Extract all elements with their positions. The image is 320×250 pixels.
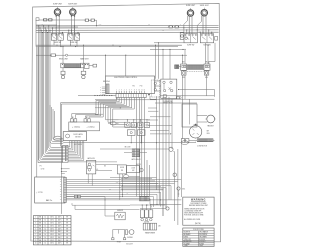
svg-text:BK: BK — [60, 181, 62, 183]
relay K4 — [144, 123, 149, 128]
svg-text:BK: BK — [60, 186, 62, 188]
convection motor M1 — [189, 126, 201, 138]
door lock assembly box — [35, 177, 65, 203]
svg-text:⏚ 1.05Ωmax: ⏚ 1.05Ωmax — [72, 125, 80, 128]
svg-text:MOL: MOL — [207, 133, 210, 135]
servo box — [127, 166, 140, 173]
svg-text:BK: BK — [60, 196, 62, 198]
svg-text:BK: BK — [39, 223, 41, 225]
wire bus left tie — [35, 20, 37, 47]
svg-text:BK: BK — [104, 166, 106, 168]
fuse F3 — [85, 19, 88, 21]
door switch box — [117, 165, 126, 174]
wire drops to right switches — [208, 30, 210, 34]
svg-text:SURF UNIT: SURF UNIT — [53, 4, 62, 6]
wire loop lower — [71, 203, 73, 205]
svg-text:Y-YELLOW: Y-YELLOW — [184, 239, 192, 241]
wire fuse feed — [39, 19, 85, 21]
svg-text:BROIL UNIT: BROIL UNIT — [59, 58, 68, 60]
oven sensor RTD — [115, 212, 125, 220]
fuse F5 on bus — [169, 26, 172, 28]
svg-text:105°C: 105°C — [50, 240, 54, 242]
transformer T1 — [143, 223, 149, 230]
relay module RM3 — [149, 210, 153, 218]
svg-text:PU-PURPLE: PU-PURPLE — [199, 234, 207, 236]
wire P1 long rows — [68, 161, 117, 163]
wire mesh horizontals — [100, 148, 169, 150]
terminal block TB1 — [215, 37, 218, 41]
svg-text:SE: SE — [66, 237, 68, 239]
relay K5 — [127, 130, 135, 136]
bus junction dots — [56, 27, 57, 28]
svg-text:BK: BK — [39, 243, 41, 245]
wire feed M3 — [150, 48, 184, 50]
svg-text:14: 14 — [45, 231, 47, 233]
svg-text:200°C: 200°C — [58, 217, 62, 219]
svg-text:14: 14 — [45, 234, 47, 236]
fuse F8 — [176, 97, 179, 99]
svg-text:200°C: 200°C — [58, 234, 62, 236]
bake element lead stub — [175, 65, 179, 69]
wire P1 up-comb — [68, 141, 70, 147]
svg-text:BK: BK — [39, 220, 41, 222]
svg-text:BROWN A: BROWN A — [103, 80, 110, 83]
wire SB4 drops — [202, 16, 204, 34]
lock housing box — [182, 104, 197, 127]
svg-text:BL-BLUE: BL-BLUE — [199, 239, 205, 241]
wire SB3 drops — [188, 16, 190, 34]
conv terminal blocks — [181, 139, 184, 143]
fan motor M2 — [207, 115, 215, 123]
relay K6 — [137, 130, 145, 136]
convection element E3 — [197, 139, 213, 142]
wire door sw drops — [119, 174, 121, 200]
relay module RM2 — [145, 210, 149, 218]
svg-text:12 RD: 12 RD — [41, 168, 45, 170]
svg-text:SE: SE — [66, 240, 68, 242]
connector arrow A1 — [150, 133, 170, 135]
fuse F6 on bus — [175, 26, 178, 28]
wire stub CB1 — [89, 65, 93, 67]
svg-text:TRANSFORMER: TRANSFORMER — [145, 231, 155, 234]
connector oval P9 — [123, 175, 128, 178]
svg-text:SURF UNIT: SURF UNIT — [200, 5, 209, 7]
infinite switch S4 — [74, 34, 79, 41]
fuse F1 — [44, 19, 47, 21]
svg-text:BK: BK — [116, 98, 118, 100]
broil feed wires — [62, 47, 64, 64]
svg-text:105°C: 105°C — [50, 225, 54, 227]
wire mesh stubs right — [148, 107, 157, 109]
svg-text:SE: SE — [66, 231, 68, 233]
wire harness feed arrows — [78, 95, 116, 97]
svg-text:BR-BROWN: BR-BROWN — [184, 241, 192, 243]
svg-text:P13: P13 — [140, 86, 143, 88]
hanger bracket left — [61, 71, 65, 74]
U1 edge connector — [106, 84, 109, 94]
svg-text:SURF UNIT: SURF UNIT — [186, 5, 195, 7]
svg-text:2 BK: 2 BK — [116, 182, 119, 184]
door latch motor box — [63, 132, 86, 141]
svg-text:BR: BR — [207, 131, 209, 133]
wire SB2 drops — [71, 15, 73, 33]
wire K11 drops — [156, 96, 158, 190]
svg-text:14: 14 — [45, 237, 47, 239]
MOL switch right — [204, 71, 208, 75]
svg-text:200°C: 200°C — [58, 228, 62, 230]
svg-text:ELECTRONIC OVEN CONTROL: ELECTRONIC OVEN CONTROL — [114, 77, 137, 79]
svg-text:SE: SE — [66, 225, 68, 227]
svg-text:10: 10 — [139, 90, 141, 92]
svg-text:BK: BK — [60, 194, 62, 196]
RM terminal circles — [141, 218, 144, 221]
relay K2 — [131, 123, 136, 128]
connector P2 strip — [116, 94, 146, 98]
wire SB4 bend — [197, 16, 201, 34]
wire bus L5 — [36, 31, 219, 33]
MOL switch left — [182, 71, 186, 75]
node lamp — [56, 54, 66, 56]
limiter L1 — [93, 64, 97, 67]
svg-text:4 R: 4 R — [126, 193, 128, 195]
svg-text:LATCH SW: LATCH SW — [87, 157, 95, 160]
svg-text:14: 14 — [45, 240, 47, 242]
solenoid box — [69, 122, 100, 131]
svg-text:BK: BK — [60, 189, 62, 191]
svg-text:WIRING SHOWN WITH DOOR: WIRING SHOWN WITH DOOR — [184, 209, 204, 211]
wire lamp feed — [36, 54, 51, 56]
svg-text:BK LOW: BK LOW — [125, 147, 131, 149]
svg-text:DOUBLE LINE: DOUBLE LINE — [163, 101, 172, 103]
svg-text:SE: SE — [66, 228, 68, 230]
wire gauge table — [33, 216, 71, 245]
svg-text:12: 12 — [144, 90, 146, 92]
connector block CB1 — [84, 63, 89, 68]
wire bake tops — [182, 55, 184, 64]
MOL node circle — [177, 187, 180, 190]
svg-text:14: 14 — [45, 228, 47, 230]
svg-text:SURF UNIT: SURF UNIT — [68, 4, 77, 6]
svg-text:BK: BK — [60, 184, 62, 186]
wire fuse feed right — [89, 19, 91, 21]
svg-text:SE: SE — [66, 217, 68, 219]
svg-text:6: 6 — [129, 90, 130, 92]
svg-text:BK: BK — [60, 199, 62, 201]
inline connector CB6 — [74, 195, 77, 198]
color code table — [183, 228, 214, 246]
thermal switch TS1 — [113, 230, 125, 238]
oven light switch box — [180, 33, 184, 40]
junction cross — [194, 123, 198, 125]
wire upper fan — [49, 105, 51, 142]
svg-text:MOTOR: MOTOR — [75, 137, 80, 139]
svg-text:BK 8: BK 8 — [205, 62, 208, 64]
connector stub CB5 — [84, 119, 87, 122]
svg-text:200°C: 200°C — [58, 223, 62, 225]
fuse F4 — [91, 19, 94, 21]
junction node J2 — [166, 207, 169, 210]
wire fan motor leads — [197, 114, 207, 116]
svg-text:SE: SE — [66, 220, 68, 222]
wire motor feed B — [150, 98, 214, 100]
svg-text:SE: SE — [66, 234, 68, 236]
U1 pin ticks — [116, 91, 118, 94]
relay K11 double line break — [161, 79, 177, 98]
svg-text:K6 24V: K6 24V — [136, 164, 141, 166]
fuse F2 — [49, 19, 52, 21]
svg-text:LOCK: LOCK — [131, 168, 135, 170]
svg-text:L2: L2 — [162, 30, 164, 32]
wire bus L4 — [36, 29, 219, 31]
relay K3 — [138, 122, 143, 127]
relay K1 — [125, 122, 130, 127]
wire SB3 bend — [184, 16, 188, 33]
broil element terminal left — [61, 63, 64, 68]
junction node J3 — [173, 173, 176, 176]
wire bus L6 (left stub) — [36, 26, 78, 28]
wire conv link — [189, 139, 197, 141]
svg-text:2: 2 — [119, 90, 120, 92]
terminal circle right — [82, 75, 85, 78]
svg-text:11: 11 — [141, 90, 143, 92]
svg-text:BK: BK — [39, 228, 41, 230]
wire main rail — [63, 142, 181, 144]
svg-text:POSITION. USE 105°C WIRE.: POSITION. USE 105°C WIRE. — [184, 215, 204, 217]
svg-text:BK: BK — [60, 179, 62, 181]
terminal circle left — [61, 75, 64, 78]
svg-text:SURF SW: SURF SW — [203, 45, 211, 47]
wire comb stub — [95, 107, 120, 109]
bake element terminal left — [181, 64, 187, 70]
svg-text:4: 4 — [124, 90, 125, 92]
connector block P8 — [132, 149, 140, 157]
svg-text:200°C: 200°C — [58, 225, 62, 227]
svg-text:14: 14 — [45, 220, 47, 222]
bake element terminal right — [204, 64, 210, 70]
svg-text:105°C: 105°C — [50, 234, 54, 236]
connector block P4 — [140, 196, 150, 201]
wire motor feed A — [160, 95, 214, 97]
connector P1 — [63, 145, 68, 162]
svg-text:⨍ 1.77Ω: ⨍ 1.77Ω — [37, 191, 44, 194]
svg-text:BK: BK — [39, 240, 41, 242]
svg-text:GR-GREEN: GR-GREEN — [199, 236, 207, 238]
P1 top row feed — [61, 145, 63, 147]
svg-text:FAN MOT: FAN MOT — [208, 124, 215, 127]
svg-text:BUZZER: BUZZER — [127, 237, 132, 239]
broil element E1 — [65, 64, 81, 68]
wire sensor link — [179, 89, 215, 91]
bake element mechanical link — [187, 71, 204, 73]
svg-text:1: 1 — [116, 90, 117, 92]
page border frame — [31, 3, 221, 241]
wire latch out — [96, 164, 118, 166]
wire drops to left switches — [52, 28, 54, 34]
wire center horizontals — [121, 178, 152, 180]
connector oval P7 — [111, 121, 116, 125]
svg-text:⏚ 1.05Ωmax: ⏚ 1.05Ωmax — [86, 125, 94, 128]
svg-text:MOL: MOL — [182, 189, 185, 191]
svg-text:V-VIOLET: V-VIOLET — [199, 241, 205, 243]
wire feed M2 — [36, 46, 178, 48]
svg-text:105°C: 105°C — [50, 243, 54, 245]
surface unit SB1 — [54, 9, 60, 15]
lock box pin strip — [64, 177, 67, 202]
relay module RM1 — [140, 210, 144, 218]
svg-text:105°C: 105°C — [50, 223, 54, 225]
svg-text:1 BK: 1 BK — [99, 24, 102, 26]
svg-text:SW: SW — [121, 170, 124, 172]
svg-text:DISCONNECT POWER: DISCONNECT POWER — [190, 203, 207, 205]
wire lock drops — [170, 186, 172, 200]
relay K10 (dashed) — [151, 80, 159, 97]
wire lamp to control — [68, 54, 187, 56]
surface unit SB3 — [187, 10, 193, 16]
svg-text:14: 14 — [45, 223, 47, 225]
svg-text:SENSOR: SENSOR — [117, 210, 123, 212]
svg-text:BAKE UNIT: BAKE UNIT — [80, 57, 88, 60]
connector P5 oval — [54, 136, 62, 140]
wire bus L1 — [36, 24, 57, 26]
wire relay feeds — [155, 45, 157, 79]
svg-text:200°C: 200°C — [58, 237, 62, 239]
wire RM feed — [130, 204, 165, 206]
bake element E2 — [187, 65, 204, 69]
wire right edge link — [214, 43, 216, 62]
svg-text:BK: BK — [39, 237, 41, 239]
infinite switch S5 — [184, 34, 197, 43]
notes box — [183, 197, 214, 225]
wire far-left drop — [36, 47, 38, 177]
svg-text:(NOTE): (NOTE) — [195, 223, 201, 225]
broil element terminal right — [81, 63, 84, 68]
infinite switch S2 — [58, 34, 63, 41]
wire motor drop — [195, 124, 197, 125]
svg-text:DOOR LATCH: DOOR LATCH — [73, 133, 82, 136]
svg-text:SW: SW — [132, 170, 135, 172]
svg-text:B: B — [100, 92, 101, 94]
svg-text:SURF SW: SURF SW — [187, 45, 195, 47]
svg-text:BK: BK — [60, 191, 62, 193]
svg-text:MAX 25s: MAX 25s — [46, 199, 53, 202]
svg-text:7: 7 — [131, 90, 132, 92]
svg-text:105°C: 105°C — [50, 220, 54, 222]
svg-text:200°C: 200°C — [58, 220, 62, 222]
connector block left edge — [36, 18, 39, 21]
svg-text:BK: BK — [39, 231, 41, 233]
svg-text:105°C: 105°C — [50, 237, 54, 239]
svg-text:W/BK: W/BK — [199, 245, 203, 247]
wire SB1 drops — [55, 15, 57, 33]
svg-text:DOOR: DOOR — [120, 167, 124, 169]
connector oval P6 — [181, 141, 188, 145]
svg-text:P1: P1 — [40, 166, 42, 168]
svg-text:B: B — [100, 90, 101, 92]
infinite switch S3 — [68, 34, 73, 41]
electronic oven control U1 — [106, 76, 155, 94]
svg-text:9: 9 — [136, 90, 137, 92]
svg-text:24V: 24V — [158, 226, 160, 228]
wire relay stubs — [126, 120, 128, 122]
fuse F7 — [51, 54, 56, 57]
wire bus L3 — [36, 27, 219, 29]
wire bake bottoms — [182, 75, 184, 139]
svg-text:3: 3 — [121, 90, 122, 92]
svg-text:14: 14 — [45, 217, 47, 219]
wire pair to latch — [61, 103, 116, 147]
svg-text:105°C: 105°C — [50, 217, 54, 219]
svg-text:R-RED: R-RED — [184, 236, 188, 238]
svg-text:105°C: 105°C — [50, 228, 54, 230]
svg-text:ALL WIRING 105°C MIN: ALL WIRING 105°C MIN — [184, 218, 200, 221]
svg-text:B: B — [100, 87, 101, 89]
svg-text:CONV MOTOR: CONV MOTOR — [197, 146, 207, 148]
wire feed M1 — [36, 44, 182, 46]
wire labelled BK — [95, 99, 157, 101]
wire mesh verticals — [180, 143, 182, 197]
infinite switch S1 — [51, 34, 56, 41]
svg-text:14: 14 — [45, 225, 47, 227]
svg-text:BEFORE SERVICING UNIT: BEFORE SERVICING UNIT — [189, 205, 208, 207]
connector stub CB4 — [70, 119, 73, 122]
svg-text:BK: BK — [39, 234, 41, 236]
svg-text:2 R: 2 R — [148, 24, 150, 26]
wire harness main drop — [38, 26, 40, 160]
wire U1 to K11 — [155, 80, 161, 82]
svg-text:SE: SE — [66, 223, 68, 225]
svg-text:14: 14 — [45, 243, 47, 245]
svg-text:BK: BK — [39, 217, 41, 219]
svg-text:200°C: 200°C — [58, 240, 62, 242]
wire motor feed C — [155, 102, 197, 104]
svg-text:5: 5 — [126, 90, 127, 92]
svg-text:316437: 316437 — [126, 243, 134, 245]
wire feed M0 — [154, 42, 184, 44]
svg-text:105°C: 105°C — [50, 231, 54, 233]
surface unit SB4 — [201, 10, 207, 16]
svg-text:BK: BK — [39, 225, 41, 227]
wire harness comb — [72, 98, 117, 118]
surface unit SB2 — [70, 9, 76, 15]
svg-text:200°C: 200°C — [58, 231, 62, 233]
svg-text:200°C: 200°C — [58, 243, 62, 245]
wire lock box out — [66, 179, 181, 181]
wire bus L2 — [36, 25, 219, 27]
svg-text:P12: P12 — [133, 86, 136, 88]
wire harness deep drops — [136, 98, 138, 197]
wire switch stubs — [53, 40, 55, 45]
svg-text:SWITCHES SHOWN IN OFF: SWITCHES SHOWN IN OFF — [184, 213, 203, 215]
buzzer B1 — [129, 230, 134, 235]
infinite switch S6 — [200, 34, 213, 43]
svg-text:8: 8 — [134, 90, 135, 92]
wire lower links — [61, 168, 69, 170]
svg-text:B: B — [100, 88, 101, 90]
svg-text:W-WHITE: W-WHITE — [184, 232, 190, 234]
hanger bracket right — [81, 71, 86, 74]
svg-text:SE: SE — [66, 243, 68, 245]
junction node J1 — [169, 147, 173, 151]
svg-text:W: W — [180, 24, 182, 26]
svg-text:10: 10 — [35, 243, 37, 245]
